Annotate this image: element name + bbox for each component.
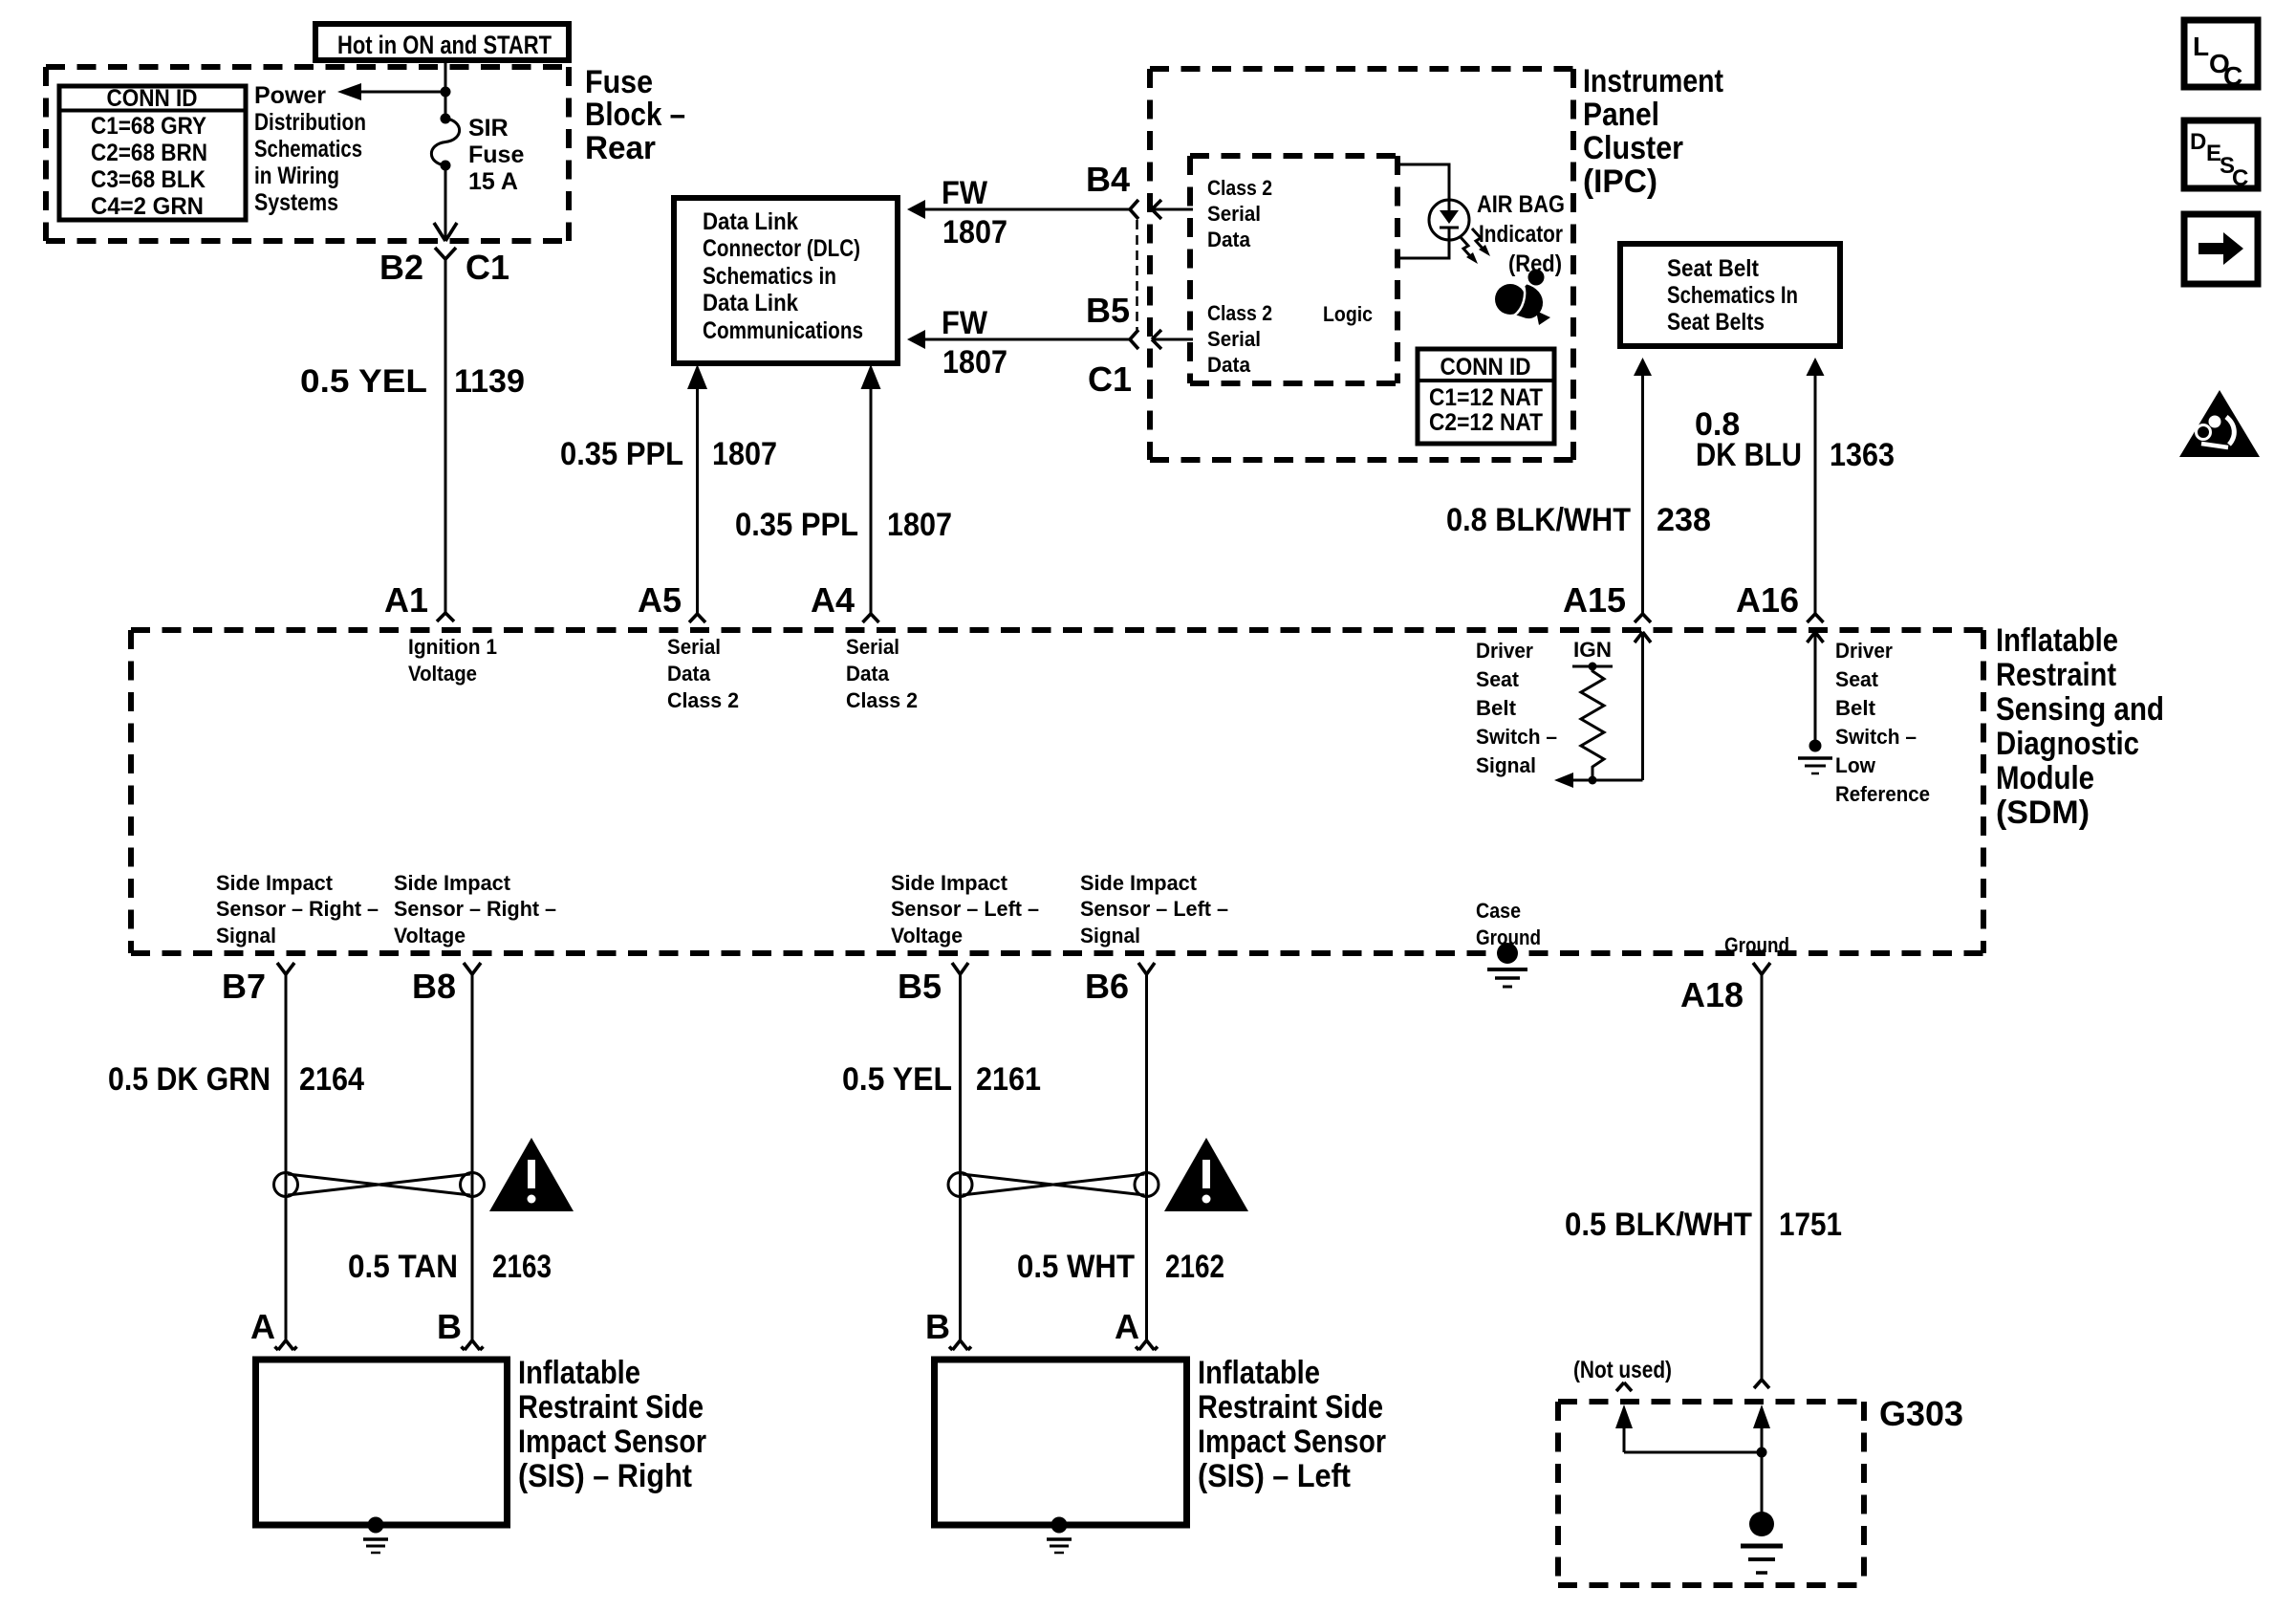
node junction in G303 [1757,1448,1767,1458]
svg-text:B: B [925,1307,950,1346]
svg-text:AIR BAG: AIR BAG [1477,191,1565,218]
wire A15 to seat belt box [1641,376,1644,614]
svg-text:Block –: Block – [585,97,685,133]
svg-text:Cluster: Cluster [1583,130,1683,166]
fuse F SIR 15A [431,114,459,171]
svg-text:Class 2: Class 2 [667,688,739,712]
svg-text:(SDM): (SDM) [1996,795,2090,831]
svg-text:Restraint Side: Restraint Side [1198,1389,1383,1426]
wire 0.5 YEL 1139 from fuse block to SDM A1 [444,259,447,613]
svg-text:Serial: Serial [846,635,899,659]
svg-text:Data: Data [1207,353,1251,377]
label Inflatable Restraint Sensing and Diagnostic Module (SDM) [1996,622,2164,831]
svg-text:A4: A4 [811,580,855,620]
svg-text:Schematics in: Schematics in [703,263,836,290]
wire stub inside IPC [1152,338,1193,341]
connector at SDM pin A16 [1808,614,1824,622]
svg-text:0.5 DK GRN: 0.5 DK GRN [108,1061,271,1098]
svg-text:15 A: 15 A [468,168,518,195]
power label box "Hot in ON and START" [315,24,569,60]
svg-text:Serial: Serial [667,635,721,659]
svg-text:0.5 YEL: 0.5 YEL [842,1061,952,1098]
svg-text:Voltage: Voltage [408,662,477,686]
svg-text:1751: 1751 [1779,1207,1842,1243]
svg-text:(IPC): (IPC) [1583,163,1657,200]
svg-text:Connector (DLC): Connector (DLC) [703,235,860,262]
arrowhead into seat belt box [1807,358,1825,376]
svg-text:0.5 BLK/WHT: 0.5 BLK/WHT [1565,1207,1752,1243]
label Fuse Block - Rear [585,64,685,166]
twisted pair symbol left [948,1173,1159,1197]
svg-text:A: A [250,1307,275,1346]
svg-text:0.5 YEL: 0.5 YEL [300,363,427,400]
arrowhead up at A16 [1808,632,1824,642]
svg-text:Class 2: Class 2 [1207,301,1272,325]
svg-text:C1=12 NAT: C1=12 NAT [1429,384,1543,411]
svg-text:Sensing and: Sensing and [1996,691,2164,728]
ground G303 [1741,1512,1783,1573]
svg-text:0.5 TAN: 0.5 TAN [348,1249,458,1285]
svg-text:CONN ID: CONN ID [107,85,198,112]
svg-text:Data Link: Data Link [703,290,798,316]
wire A16 to seat belt box [1814,376,1817,614]
label Driver Seat Belt Switch - Low Reference [1835,639,1930,806]
G303 dashed enclosure [1558,1402,1864,1585]
svg-text:Class 2: Class 2 [1207,176,1272,200]
connector at SDM pin B6 [1138,963,1155,974]
connector male arrow into IPC [1152,330,1161,349]
svg-text:Data: Data [667,662,711,686]
connector at SDM pin B7 [277,963,294,974]
svg-text:Instrument: Instrument [1583,63,1723,99]
svg-text:Class 2: Class 2 [846,688,918,712]
svg-text:in Wiring: in Wiring [254,163,339,189]
connector same-connector dashed link [1136,220,1138,330]
wire not used stem [1623,1425,1626,1452]
wire resistor to A15 line [1573,779,1643,782]
label SIR Fuse 15 A [468,115,524,195]
connector at SDM pin B8 [464,963,481,974]
svg-text:Power: Power [254,82,326,109]
label Class 2 Serial Data (B4) [1207,176,1272,251]
svg-text:L: L [2193,32,2209,61]
wire 0.5 TAN 2163 [471,974,474,1340]
connector at IPC pin B4 female [1130,200,1138,219]
svg-text:Serial: Serial [1207,202,1261,226]
svg-text:B8: B8 [412,967,456,1006]
svg-text:Sensor – Right –: Sensor – Right – [394,897,556,921]
svg-text:Belt: Belt [1476,696,1517,720]
wire from fuse to fuse block edge [444,165,447,239]
svg-text:Side Impact: Side Impact [1080,871,1198,895]
arrowhead to power distribution [337,83,361,100]
svg-text:C3=68 BLK: C3=68 BLK [91,166,206,193]
connector at right sensor pin A [275,1340,297,1350]
value label 0.8 DK BLU [1695,406,1802,473]
wire serial data A4 to DLC [870,389,873,614]
svg-text:Serial: Serial [1207,327,1261,351]
svg-text:Switch –: Switch – [1476,725,1557,749]
wire main ground stem [1761,1425,1764,1514]
svg-text:A1: A1 [384,580,428,620]
wire indicator back to logic [1397,240,1449,258]
svg-text:C2=68 BRN: C2=68 BRN [91,140,207,166]
wire branch to not used stub [1624,1451,1762,1454]
svg-text:Schematics In: Schematics In [1667,282,1798,309]
ground case ground [1487,943,1527,987]
air bag pictogram [1495,270,1550,326]
svg-text:Belt: Belt [1835,696,1876,720]
svg-text:B5: B5 [1086,291,1130,330]
svg-text:(SIS) – Left: (SIS) – Left [1198,1458,1351,1494]
svg-text:A5: A5 [638,580,682,620]
svg-text:(Not used): (Not used) [1573,1357,1672,1383]
svg-text:Data: Data [846,662,890,686]
svg-text:Panel: Panel [1583,97,1659,133]
label Inflatable Restraint Side Impact Sensor (SIS) - Left [1198,1355,1386,1494]
arrowhead into seat belt box [1634,358,1652,376]
svg-text:Seat: Seat [1835,667,1879,691]
label Side Impact Sensor - Right - Signal [216,871,379,947]
svg-text:B7: B7 [222,967,266,1006]
svg-text:A16: A16 [1736,580,1799,620]
label Serial Data Class 2 (A4) [846,635,918,712]
svg-text:2162: 2162 [1165,1249,1224,1285]
SIS right sensor box [256,1360,508,1525]
IPC dashed enclosure [1150,69,1573,460]
connector B2/C1 [435,248,456,259]
svg-text:C1: C1 [1088,359,1132,399]
icon DESC box [2184,120,2258,191]
svg-text:C1=68 GRY: C1=68 GRY [91,113,206,140]
fuse block CONN ID table [59,85,246,220]
svg-text:Seat Belts: Seat Belts [1667,309,1765,336]
svg-text:1807: 1807 [712,436,777,472]
svg-text:B2: B2 [379,248,423,287]
fuse block rear dashed enclosure [46,67,569,241]
svg-text:Signal: Signal [1080,924,1140,947]
svg-text:Ground: Ground [1724,933,1789,957]
svg-text:C1: C1 [466,248,509,287]
svg-text:FW: FW [942,305,988,341]
svg-text:B5: B5 [898,967,942,1006]
svg-text:C2=12 NAT: C2=12 NAT [1429,409,1543,436]
svg-text:SIR: SIR [468,115,509,142]
seat belt reference box [1620,244,1840,346]
label Ignition 1 Voltage [408,635,497,686]
svg-text:Module: Module [1996,760,2094,796]
svg-text:Side Impact: Side Impact [394,871,511,895]
svg-text:Fuse: Fuse [468,142,524,168]
IPC CONN ID table [1418,349,1554,444]
wire logic to air bag indicator [1397,164,1449,200]
label Serial Data Class 2 (A5) [667,635,739,712]
label Inflatable Restraint Side Impact Sensor (SIS) - Right [518,1355,706,1494]
connector at SDM pin B5 [952,963,968,974]
svg-text:DK BLU: DK BLU [1696,437,1802,473]
twisted pair symbol right [274,1173,485,1197]
wire A16 inside SDM [1814,632,1817,743]
light emission arrows [1460,229,1490,264]
connector at SDM pin A18 [1753,963,1770,974]
svg-text:Low: Low [1835,753,1876,777]
svg-text:A15: A15 [1563,580,1626,620]
label Case Ground [1476,899,1541,949]
label Driver Seat Belt Switch - Signal [1476,639,1557,777]
svg-text:A18: A18 [1680,975,1744,1014]
label Side Impact Sensor - Left - Signal [1080,871,1228,947]
svg-text:Schematics: Schematics [254,136,362,163]
svg-text:Voltage: Voltage [394,924,466,947]
svg-text:FW: FW [942,175,988,211]
arrowhead signal direction [1554,773,1573,788]
svg-text:Fuse: Fuse [585,64,653,100]
svg-text:C: C [2232,165,2248,191]
svg-text:238: 238 [1657,502,1711,538]
connector at SDM pin A1 [437,613,454,621]
svg-text:A: A [1115,1307,1139,1346]
ground low reference [1798,740,1832,774]
svg-text:1807: 1807 [942,344,1007,381]
icon SIR caution triangle [2179,390,2260,457]
data link connector reference box [674,198,898,363]
svg-text:Driver: Driver [1835,639,1893,663]
svg-text:CONN ID: CONN ID [1440,354,1531,381]
svg-text:G303: G303 [1879,1394,1963,1433]
wire stub inside IPC [1152,208,1193,211]
connector male arrow into IPC [1152,200,1161,219]
svg-text:2161: 2161 [976,1061,1041,1098]
svg-text:Data Link: Data Link [703,208,798,235]
svg-text:B: B [437,1307,462,1346]
label Instrument Panel Cluster (IPC) [1583,63,1723,200]
svg-text:Seat Belt: Seat Belt [1667,255,1760,282]
arrowhead into G303 not used [1615,1404,1633,1428]
svg-text:2163: 2163 [492,1249,552,1285]
svg-text:Systems: Systems [254,189,338,216]
wire 0.5 BLK/WHT 1751 [1761,974,1764,1380]
svg-text:Sensor – Left –: Sensor – Left – [1080,897,1228,921]
svg-text:Switch –: Switch – [1835,725,1917,749]
resistor seat belt switch pull-up [1572,663,1613,785]
arrowhead up at A15 [1635,632,1651,642]
connector not used stub [1616,1382,1632,1391]
svg-text:1139: 1139 [454,363,525,400]
warning triangle left [1164,1138,1248,1211]
svg-text:Restraint Side: Restraint Side [518,1389,704,1426]
SDM dashed enclosure [131,630,1983,953]
svg-text:Signal: Signal [216,924,276,947]
svg-text:Communications: Communications [703,317,863,344]
svg-text:Seat: Seat [1476,667,1520,691]
arrowhead into DLC [687,364,707,389]
icon forward arrow box [2184,214,2258,284]
wire 0.5 WHT 2162 [1145,974,1148,1340]
svg-text:C4=2 GRN: C4=2 GRN [91,193,204,220]
SIS left sensor box [935,1360,1187,1525]
svg-text:Driver: Driver [1476,639,1533,663]
svg-text:B6: B6 [1085,967,1129,1006]
wire 0.5 DK GRN 2164 [285,974,288,1340]
note "Power Distribution Schematics in Wiring Systems" [254,82,366,216]
node junction to power distribution [441,87,451,98]
svg-text:Hot in ON and START: Hot in ON and START [337,31,552,59]
svg-text:Distribution: Distribution [254,109,366,136]
svg-text:1807: 1807 [942,214,1007,250]
label Side Impact Sensor - Right - Voltage [394,871,556,947]
IPC logic inner dashed box [1190,156,1397,383]
svg-text:Logic: Logic [1323,302,1373,326]
arrowhead into DLC [861,364,881,389]
svg-text:Rear: Rear [585,130,656,166]
svg-text:Voltage: Voltage [891,924,963,947]
svg-text:Inflatable: Inflatable [518,1355,640,1391]
svg-text:1807: 1807 [887,507,952,543]
svg-text:B4: B4 [1086,160,1130,199]
indicator lamp U AIR BAG (Red) [1429,200,1469,240]
arrowhead exiting fuse block [434,223,457,241]
svg-text:Inflatable: Inflatable [1198,1355,1320,1391]
svg-text:0.35 PPL: 0.35 PPL [735,507,858,543]
svg-text:Data: Data [1207,228,1251,251]
svg-text:Case: Case [1476,899,1521,923]
connector at SDM pin A4 [863,614,879,622]
svg-text:Ignition 1: Ignition 1 [408,635,497,659]
svg-text:Signal: Signal [1476,753,1536,777]
svg-text:Indicator: Indicator [1479,221,1563,248]
wire FW 1807 class 2 serial data B5 [907,330,1130,349]
connector at SDM pin A5 [689,614,705,622]
connector at IPC pin B5 female [1130,330,1138,349]
connector at left sensor pin B [949,1340,971,1350]
wire A15 inside SDM [1641,632,1644,780]
svg-text:Impact Sensor: Impact Sensor [1198,1424,1386,1460]
wire FW 1807 class 2 serial data B4 [907,200,1130,219]
svg-text:Side Impact: Side Impact [891,871,1008,895]
svg-text:0.8 BLK/WHT: 0.8 BLK/WHT [1446,502,1631,538]
svg-text:0.5 WHT: 0.5 WHT [1017,1249,1135,1285]
connector at right sensor pin B [462,1340,484,1350]
svg-text:1363: 1363 [1830,437,1895,473]
svg-text:IGN: IGN [1573,638,1612,662]
svg-text:Restraint: Restraint [1996,657,2116,693]
ground at right sensor [363,1517,388,1554]
svg-text:0.35 PPL: 0.35 PPL [560,436,683,472]
svg-text:Diagnostic: Diagnostic [1996,726,2139,762]
svg-text:Reference: Reference [1835,782,1930,806]
label Class 2 Serial Data (B5) [1207,301,1272,377]
connector at left sensor pin A [1136,1340,1158,1350]
label AIR BAG Indicator (Red) [1477,191,1565,277]
label Side Impact Sensor - Left - Voltage [891,871,1039,947]
arrowhead into G303 main [1753,1404,1770,1428]
connector at SDM pin A15 [1635,614,1651,622]
wire branch to power distribution [361,91,445,94]
svg-text:Sensor – Left –: Sensor – Left – [891,897,1039,921]
svg-text:Sensor – Right –: Sensor – Right – [216,897,379,921]
warning triangle right [489,1138,574,1211]
svg-text:Side Impact: Side Impact [216,871,334,895]
svg-text:D: D [2190,129,2206,155]
ground at left sensor [1047,1517,1072,1554]
wire from Hot feed down into fuse block [444,60,447,119]
icon LOC box [2184,20,2258,91]
svg-text:(SIS) – Right: (SIS) – Right [518,1458,692,1494]
wire serial data A5 to DLC [696,389,699,614]
svg-text:Inflatable: Inflatable [1996,622,2118,659]
svg-text:2164: 2164 [299,1061,364,1098]
connector at G303 main [1754,1380,1769,1388]
svg-text:C: C [2223,61,2242,91]
svg-text:Impact Sensor: Impact Sensor [518,1424,706,1460]
wire 0.5 YEL 2161 [959,974,962,1340]
